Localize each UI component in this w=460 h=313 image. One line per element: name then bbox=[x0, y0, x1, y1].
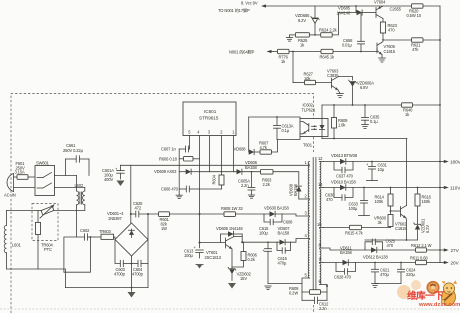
wire Vcc 9V with arrow bbox=[218, 1, 440, 14]
transistor Q VT601 2SC1813 bbox=[200, 237, 235, 261]
feedback bus wire y=105 bbox=[322, 104, 440, 106]
wire VT601 emitter down bbox=[231, 249, 233, 267]
capacitor C658 0.01u bbox=[342, 13, 365, 52]
svg-text:8. Vcc 9V: 8. Vcc 9V bbox=[241, 1, 258, 6]
svg-text:4700p: 4700p bbox=[114, 272, 126, 277]
wire opto lower-left bbox=[277, 137, 300, 140]
svg-text:100k: 100k bbox=[375, 199, 384, 204]
resistor R615 4.7k bbox=[345, 225, 391, 235]
svg-text:STR9615: STR9615 bbox=[199, 116, 219, 121]
transformer pin 13 tap bbox=[318, 182, 324, 188]
ground under snubber column bbox=[176, 195, 182, 199]
resistor R616 150k (vertical) bbox=[415, 187, 432, 224]
svg-text:472: 472 bbox=[135, 206, 142, 211]
svg-text:L601: L601 bbox=[12, 243, 21, 248]
ground under C615 100u bbox=[265, 286, 271, 290]
vertical to R627 row bbox=[292, 52, 294, 83]
wire switch to filter (bottom AC line) bbox=[55, 187, 85, 189]
svg-text:0.2W: 0.2W bbox=[289, 291, 298, 296]
svg-text:BA158: BA158 bbox=[245, 165, 258, 170]
diode VD608 BA158 (vertical) bbox=[289, 183, 302, 199]
capacitor C637 470 (parallel loop) bbox=[334, 162, 354, 179]
op-amp U1 IC601 STR9615 box bbox=[183, 102, 236, 136]
svg-text:VD613 BTW38: VD613 BTW38 bbox=[331, 153, 358, 158]
diode VD606 1N4148 (base-collector) bbox=[216, 226, 243, 243]
svg-text:R645 1k: R645 1k bbox=[320, 55, 335, 60]
capacitor C615 100u (shunt) bbox=[259, 226, 272, 284]
IC601 pin 4 vertical rail bbox=[199, 136, 201, 248]
svg-text:6.2V: 6.2V bbox=[425, 225, 430, 233]
junction x148 y214 bbox=[147, 213, 149, 215]
snubber row: wire pin3 junction to VD606 bbox=[200, 171, 237, 173]
resistor R645 1k bbox=[320, 49, 378, 59]
wire VT601 collector riser bbox=[234, 234, 242, 237]
resistor R606 0.18 bbox=[159, 156, 200, 161]
svg-text:维库一下: 维库一下 bbox=[407, 289, 444, 302]
wire pin13 row bbox=[324, 187, 341, 189]
svg-text:AC~IN: AC~IN bbox=[4, 193, 16, 198]
svg-text:N001 的64脚P: N001 的64脚P bbox=[229, 49, 255, 55]
wire feedback line to V7602 collector bbox=[322, 138, 407, 140]
wire pin8 row bbox=[324, 248, 372, 250]
svg-text:TO N001 的17脚P: TO N001 的17脚P bbox=[218, 7, 250, 13]
svg-text:2SC1813: 2SC1813 bbox=[205, 255, 222, 260]
wire collector riser lower part bbox=[241, 237, 243, 243]
transistor Q V7604 C2655 bbox=[374, 0, 402, 19]
output arrow 110V bbox=[439, 186, 460, 191]
transistor Q V7602 C1F15 bbox=[390, 206, 408, 232]
svg-text:1.8k: 1.8k bbox=[338, 123, 346, 128]
wire emitter rail bbox=[365, 239, 418, 241]
wire opto LED bottom to feedback bbox=[321, 137, 323, 139]
diode VD607 BA158 bbox=[278, 226, 291, 245]
resistor R607 4.7k bbox=[259, 139, 278, 154]
wire B+ bus to transformer pin1 bbox=[121, 164, 310, 166]
svg-text:C1815: C1815 bbox=[384, 49, 396, 54]
diode VD630 BA158 bbox=[264, 206, 289, 217]
capacitor C612 2.2n bbox=[302, 297, 329, 311]
resistor R627 10k bbox=[293, 72, 332, 85]
svg-text:VD610 BA158: VD610 BA158 bbox=[331, 180, 356, 185]
svg-text:V7604: V7604 bbox=[374, 0, 386, 5]
svg-text:470μ: 470μ bbox=[278, 261, 287, 266]
svg-text:L602: L602 bbox=[75, 183, 84, 188]
svg-text:250V 0.22μ: 250V 0.22μ bbox=[63, 148, 84, 153]
left rail of snubber column bbox=[178, 149, 180, 195]
diode VD611 BA158 bbox=[343, 260, 416, 266]
resistor R611 0.68 bbox=[410, 256, 440, 265]
svg-text:400V: 400V bbox=[104, 177, 113, 182]
svg-text:15V: 15V bbox=[240, 276, 247, 281]
watermark mascot bbox=[442, 289, 456, 306]
transistor Q V7605 C1815 bbox=[377, 42, 396, 55]
svg-text:1N5397: 1N5397 bbox=[108, 216, 122, 221]
svg-text:470: 470 bbox=[388, 28, 395, 33]
wire V7603 collector to zener bbox=[339, 77, 353, 81]
svg-text:180V: 180V bbox=[450, 160, 460, 165]
svg-text:TR603: TR603 bbox=[99, 229, 112, 234]
svg-text:T601: T601 bbox=[303, 143, 313, 148]
junction base row bbox=[292, 51, 294, 53]
transistor Q V7603 C3835 bbox=[327, 69, 339, 91]
junction pin6 column bbox=[326, 285, 328, 287]
transformer pin 8 tap bbox=[319, 243, 324, 249]
zener VZD606A 6.8V bbox=[349, 80, 375, 105]
capacitor C605A 2.2n (stub to ground) bbox=[238, 172, 255, 199]
wire inner loop under C602 bbox=[64, 237, 91, 272]
svg-text:0.2k: 0.2k bbox=[248, 257, 256, 262]
transformer pin 12 tap bbox=[318, 156, 324, 162]
junction collector node V7605 bbox=[382, 39, 384, 41]
junction R609 bottom bbox=[333, 138, 335, 140]
optocoupler IC602 TLP621 bbox=[300, 103, 328, 137]
wire VD607 row to transformer pin4 bbox=[285, 239, 309, 243]
wire L602 right leg to degauss line bbox=[84, 205, 86, 211]
ground under V7603 bbox=[337, 90, 344, 98]
svg-text:R624 2.2k: R624 2.2k bbox=[319, 28, 338, 33]
IC601 pin 2 vertical bbox=[221, 136, 223, 176]
svg-text:47k: 47k bbox=[412, 47, 419, 52]
resistor R776 1k bbox=[278, 49, 322, 64]
svg-text:R604: R604 bbox=[212, 174, 217, 184]
wire R603 to VD608 bbox=[273, 172, 299, 185]
diode VD610 BA158 bbox=[331, 180, 440, 191]
svg-text:27V: 27V bbox=[451, 248, 460, 253]
ground secondary bbox=[372, 284, 379, 288]
wire base row to V7605 base bbox=[376, 48, 378, 52]
capacitor C613A 0.1u bbox=[273, 117, 293, 139]
electrolytic C621 470u bbox=[371, 263, 390, 284]
svg-text:100μ: 100μ bbox=[349, 206, 358, 211]
wire AC bottom line bbox=[14, 187, 36, 189]
resistor R604 (vertical, under pin2) bbox=[200, 174, 225, 189]
capacitor C604 4700p (series) bbox=[132, 260, 148, 276]
resistor R609 1.8k (vertical) bbox=[332, 105, 349, 139]
capacitor C625 472 (series) bbox=[131, 201, 159, 217]
svg-text:www.dzsc.com: www.dzsc.com bbox=[418, 302, 460, 308]
resistor R621 47k bbox=[383, 38, 440, 52]
electrolytic C624 220u bbox=[397, 263, 416, 284]
transformer pin 10 tap bbox=[317, 222, 324, 228]
capacitor C625 470 (parallel loop above VD612) bbox=[365, 239, 396, 251]
capacitor C607 1n bbox=[161, 146, 190, 152]
svg-text:2.2n: 2.2n bbox=[319, 306, 327, 311]
diode VD612 BA138 bbox=[340, 246, 416, 260]
resistor R624 2.2k bbox=[309, 13, 338, 38]
bottom return wire bbox=[7, 269, 149, 288]
svg-text:VD612 BA138: VD612 BA138 bbox=[363, 255, 388, 260]
wire bridge bottom to ground bbox=[131, 256, 133, 292]
wire bridge + riser (to B+ wire) bbox=[130, 165, 132, 223]
wire VD608 to transformer pin2 bbox=[299, 198, 310, 200]
transformer pin 6 tap bbox=[319, 279, 328, 285]
resistor R608 1W 33 bbox=[221, 206, 243, 216]
resistor R601 82k 1W bbox=[159, 212, 170, 231]
svg-text:SW601: SW601 bbox=[36, 161, 50, 166]
dashed box around TR604 bbox=[32, 204, 58, 241]
svg-text:2.2k: 2.2k bbox=[263, 182, 271, 187]
svg-text:IC601: IC601 bbox=[204, 109, 217, 114]
wire opto LED top riser bbox=[321, 105, 323, 119]
isolation dashed boundary (outer dashed box, left + top edges) bbox=[11, 94, 314, 313]
svg-text:8.2V: 8.2V bbox=[298, 18, 306, 23]
wire R601 to junction bbox=[170, 213, 225, 215]
degaussing coil L601 bbox=[4, 210, 21, 269]
ground (chassis arrow) under C613 bbox=[196, 265, 203, 269]
wire drop to VD688 bbox=[248, 117, 250, 152]
wire bridge right vertex riser bbox=[147, 214, 149, 288]
IC601 pin 5 stub bbox=[189, 136, 191, 150]
faint scan strip line at bottom bbox=[0, 308, 460, 310]
svg-text:4.7k: 4.7k bbox=[260, 145, 268, 150]
wire pin6 column bbox=[326, 285, 328, 301]
svg-text:C607 1n: C607 1n bbox=[161, 147, 176, 152]
common-mode choke L602 bbox=[75, 176, 85, 205]
svg-text:R606 0.18: R606 0.18 bbox=[159, 156, 178, 161]
wire VD630 row to transformer pin3 bbox=[275, 214, 309, 216]
zener VZD602 15V bbox=[228, 267, 252, 289]
transformer core bbox=[313, 158, 316, 290]
capacitor C630 470 (parallel loop) bbox=[325, 188, 353, 203]
transformer secondary winding bbox=[320, 162, 321, 285]
zener VZD685 8.2V bbox=[295, 6, 319, 35]
svg-text:150k: 150k bbox=[422, 199, 431, 204]
transformer pin 7 tap bbox=[319, 257, 324, 263]
svg-text:0.1μ: 0.1μ bbox=[282, 128, 290, 133]
IC601 pin 1 vertical bbox=[233, 136, 235, 172]
junction rail R621 bbox=[439, 39, 441, 41]
IC601 pin 3 vertical bbox=[209, 136, 211, 172]
ground under V7605 bbox=[379, 55, 386, 63]
svg-text:VD630 BA158: VD630 BA158 bbox=[264, 206, 289, 211]
svg-text:470: 470 bbox=[387, 243, 394, 248]
wire pin10 row / R615 bbox=[324, 227, 350, 229]
transformer primary winding bbox=[308, 162, 309, 279]
wire pin5 to bottom rail bbox=[302, 278, 310, 284]
resistor R609 0.2W (snubber to secondary gnd) bbox=[289, 284, 327, 301]
watermark badge logo bbox=[426, 281, 439, 294]
diode VD609 AX03 bbox=[154, 169, 200, 174]
right rail bbox=[439, 6, 441, 262]
resistor R625 1k bbox=[293, 33, 310, 48]
svg-text:PTC: PTC bbox=[44, 247, 52, 252]
output arrow 20V bbox=[440, 261, 460, 266]
resistor R640 1k bbox=[402, 103, 414, 117]
diode VD613 BTW38 bbox=[331, 153, 440, 164]
wire N001 64-pin row bbox=[229, 49, 278, 55]
svg-text:20V: 20V bbox=[451, 261, 460, 266]
primary bottom rail bbox=[268, 283, 302, 285]
svg-text:470μ: 470μ bbox=[380, 272, 389, 277]
capacitor C606 470 bbox=[161, 186, 200, 192]
svg-text:R612 2.1 W: R612 2.1 W bbox=[411, 243, 432, 248]
svg-text:BA158: BA158 bbox=[340, 250, 353, 255]
wire collector row to VD607 bbox=[242, 241, 279, 243]
capacitor C603 4700p (series) bbox=[114, 240, 138, 277]
svg-text:C628 470: C628 470 bbox=[334, 275, 352, 280]
resistor R612 2.1W bbox=[411, 243, 440, 252]
svg-text:C602: C602 bbox=[80, 228, 90, 233]
potentiometer VR600 3k (vertical) bbox=[374, 215, 393, 228]
electrolytic C631 10u bbox=[366, 162, 388, 181]
wire pin7 row bbox=[324, 262, 343, 264]
svg-text:110V: 110V bbox=[450, 186, 460, 191]
capacitor C615 470u (parallel loop) bbox=[277, 242, 291, 265]
svg-text:1N4148: 1N4148 bbox=[337, 11, 351, 16]
capacitor C613 100u (on pin4 rail) bbox=[184, 245, 203, 258]
svg-text:6.8V: 6.8V bbox=[360, 85, 368, 90]
wire fuse to switch bbox=[28, 176, 35, 178]
electrolytic C633 100u bbox=[349, 188, 370, 216]
thermistor TR604 PTC (arrow symbol) bbox=[40, 205, 54, 252]
junction bridge bottom / cap row bbox=[131, 263, 133, 265]
output arrow 27V bbox=[439, 248, 460, 253]
wire pin12 row bbox=[324, 161, 341, 163]
watermark orange splash bbox=[397, 285, 411, 299]
junction rail R640 bbox=[439, 104, 441, 106]
junction x199.5 y214 bbox=[199, 213, 201, 215]
svg-text:VD609 AX03: VD609 AX03 bbox=[154, 169, 177, 174]
AC plug symbol bbox=[7, 174, 13, 192]
resistor R606 0.2 (vertical at collector node) bbox=[232, 242, 258, 267]
capacitor C661 loop across line bbox=[63, 143, 89, 176]
svg-text:220μ: 220μ bbox=[406, 272, 415, 277]
diode VD688 bbox=[234, 147, 261, 155]
svg-text:470: 470 bbox=[326, 197, 333, 202]
resistor R614 100k (vertical) bbox=[375, 188, 394, 215]
svg-text:R611 0.68: R611 0.68 bbox=[410, 256, 428, 261]
resistor R620 0.5W 10 bbox=[407, 4, 424, 18]
svg-text:0.01μ: 0.01μ bbox=[342, 43, 352, 48]
wire TR603 to bridge AC node bbox=[114, 237, 116, 240]
thermistor TR603 bbox=[99, 229, 114, 239]
svg-text:0.1μ: 0.1μ bbox=[370, 119, 378, 124]
svg-text:1W: 1W bbox=[161, 226, 167, 231]
svg-text:BA158: BA158 bbox=[278, 231, 291, 236]
svg-text:4700p: 4700p bbox=[132, 272, 144, 277]
resistor in TR604 box bbox=[36, 210, 41, 269]
svg-text:VD606 1N4148: VD606 1N4148 bbox=[216, 226, 243, 231]
output arrow 180V bbox=[439, 160, 460, 165]
svg-text:C637 470: C637 470 bbox=[336, 174, 354, 179]
wire V7602 emitter down bbox=[405, 218, 408, 240]
svg-text:100μ: 100μ bbox=[259, 231, 268, 236]
diode VD685 1N4148 bbox=[337, 6, 377, 16]
resistor R623 470 (vertical) bbox=[380, 19, 397, 41]
wire AC top line bbox=[14, 176, 18, 178]
capacitor C608 (parallel loop under VD630) bbox=[264, 214, 293, 225]
svg-text:R608 1W 33: R608 1W 33 bbox=[221, 206, 243, 211]
junction emitter rail bbox=[406, 239, 408, 241]
zener VZD601 6.2V (vertical) bbox=[414, 218, 430, 240]
diode VD606 BA158 bbox=[237, 160, 261, 174]
electrolytic C601A 100u 400V bbox=[102, 165, 125, 186]
junction collector node bbox=[241, 241, 243, 243]
capacitor C628 470 (parallel loop below) bbox=[334, 263, 356, 280]
svg-text:C606 470: C606 470 bbox=[161, 187, 179, 192]
junction bus VZD606A bbox=[352, 104, 354, 106]
svg-text:10μ: 10μ bbox=[378, 167, 385, 172]
secondary ground rail bbox=[375, 283, 401, 285]
svg-text:100μ: 100μ bbox=[184, 253, 193, 258]
switch SW601 bbox=[35, 161, 55, 196]
svg-text:R615 4.7k: R615 4.7k bbox=[345, 231, 364, 236]
junction C602 row bbox=[90, 236, 92, 238]
fuse F601 bbox=[15, 161, 29, 179]
svg-text:C608: C608 bbox=[283, 220, 293, 225]
wire IC601 right edge to opto bbox=[249, 117, 300, 119]
wire L602 left leg down to C602 row bbox=[76, 205, 78, 237]
ground left of R625 bbox=[286, 35, 293, 41]
capacitor C635 0.1u to ground bbox=[361, 105, 380, 129]
svg-text:0.5W 10: 0.5W 10 bbox=[407, 13, 422, 18]
wire degauss top bbox=[7, 209, 85, 211]
svg-text:3.15A: 3.15A bbox=[15, 170, 25, 175]
ground (chassis arrow) bridge bbox=[128, 292, 136, 298]
capacitor C602 (series) bbox=[64, 228, 101, 240]
wire R608 to VD630 bbox=[236, 213, 270, 215]
resistor R603 2.2k bbox=[261, 170, 274, 188]
svg-text:TLP621: TLP621 bbox=[302, 108, 316, 113]
svg-text:VD688: VD688 bbox=[234, 147, 247, 152]
wire V7602 collector riser to opto feed bbox=[406, 139, 408, 206]
junction bus R609 bbox=[333, 104, 335, 106]
svg-text:C2655: C2655 bbox=[390, 7, 402, 12]
junction B+ x130.8 y214 bbox=[130, 213, 132, 215]
svg-text:C1815: C1815 bbox=[395, 226, 407, 231]
wire switch to filter (top AC line) bbox=[55, 175, 77, 177]
junction pin4 rail / VT601 base bbox=[199, 242, 201, 244]
bridge VD601~4 1N5397 bbox=[107, 211, 148, 256]
